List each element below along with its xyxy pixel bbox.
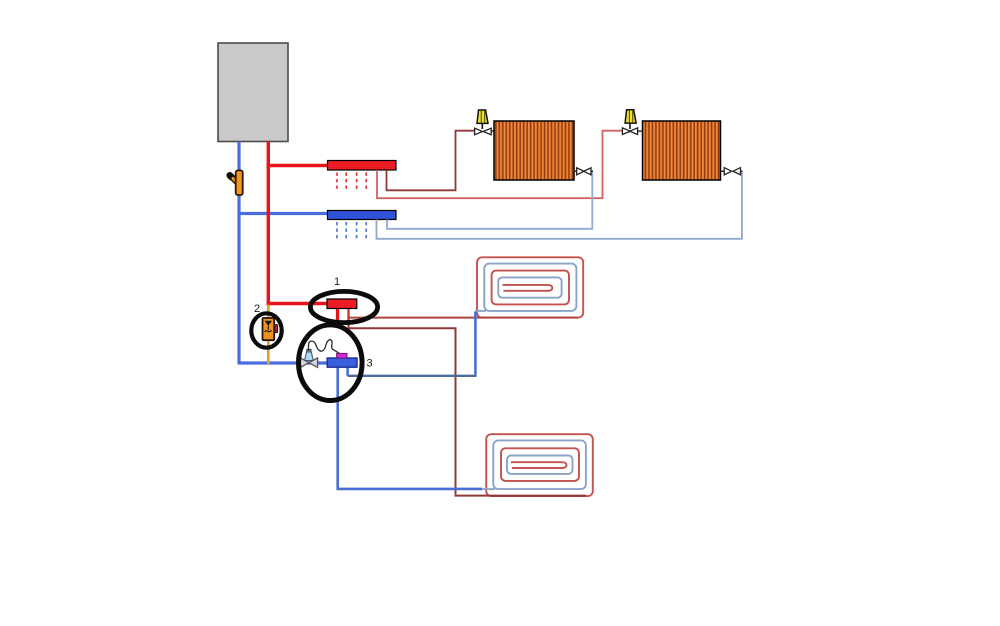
wire radiator 1 supply (dark red) (387, 131, 475, 191)
coil1 outer red ring (477, 257, 583, 317)
radiator R1 (494, 121, 574, 180)
wire blue supply vertical from boiler (237, 142, 240, 364)
boiler (218, 43, 288, 142)
valve radiator 2 return lockshield (721, 168, 743, 175)
wire blue horizontal to mixing valve (238, 361, 329, 364)
mixing valve (gray) (300, 358, 317, 368)
wire floor loop 2 feed (348, 328, 456, 494)
coil1 blue ring B (484, 264, 576, 311)
capillary wire from actuator to pump sensor (309, 340, 340, 354)
valve radiator 1 thermostatic (475, 110, 492, 135)
wire red feed to small manifold 1 (267, 302, 327, 305)
wire blue branch to blue manifold (238, 212, 328, 215)
svg-text:3: 3 (366, 358, 372, 370)
actuator cone on mixing valve (307, 349, 311, 352)
valve radiator 2 thermostatic (622, 110, 637, 135)
wire radiator 2 supply (light red) (377, 131, 623, 199)
wire manifold1 left drop (336, 309, 339, 323)
coil2 center red U-turn (511, 462, 567, 468)
coil2 outer red ring (486, 434, 593, 496)
wire floor loop 1 feed (348, 317, 579, 319)
pump (blue) (327, 358, 357, 367)
wire stub valve2 to radiator2 (637, 130, 643, 132)
wire coil1 blue exit stub (475, 310, 486, 312)
floor coil 1 (475, 257, 583, 317)
wire pump drop to coil1 return (346, 367, 349, 376)
circle highlight 1 (310, 291, 377, 322)
Y strainer on boiler return (230, 170, 243, 195)
wire pump drop to coil2 return (336, 367, 339, 489)
svg-text:1: 1 (334, 276, 340, 288)
red manifold dashed outlets (337, 173, 366, 192)
valve radiator 1 return lockshield (574, 168, 593, 175)
red manifold (328, 161, 397, 171)
circle highlight 2 (251, 313, 281, 347)
wire red vertical from boiler (267, 142, 270, 307)
wire red branch to red manifold (267, 164, 328, 167)
svg-text:2: 2 (254, 303, 260, 315)
wire manifold1 right drop (347, 309, 349, 327)
wire radiator 2 return (light blue) (377, 171, 742, 239)
coil2 red ring C (501, 448, 579, 481)
circle highlight 3 (299, 325, 363, 401)
coil1 blue ring D (498, 277, 561, 297)
wire floor loop 2 feed bottom (455, 495, 587, 497)
wire coil1 return horizontal to pump (348, 375, 477, 377)
pump sensor cap (magenta) (337, 353, 347, 358)
coil1 red ring C (492, 271, 569, 305)
floor coil 2 (480, 434, 593, 496)
radiator R2 (643, 121, 721, 180)
blue manifold dashed outlets (337, 222, 366, 241)
blue manifold (328, 211, 397, 220)
wire stub valve1 to radiator1 (491, 130, 495, 132)
coil2 blue ring D (507, 456, 573, 474)
wire coil2 return horizontal (337, 488, 483, 491)
coil2 blue ring B (493, 440, 586, 489)
wire radiator 1 return (light blue) (387, 171, 592, 229)
small manifold 1 (circled) (327, 299, 357, 309)
wire coil2 blue exit stub (480, 488, 495, 490)
wire orange bypass vertical (267, 305, 270, 365)
coil1 center red U-turn (503, 285, 553, 291)
wire coil1 blue return vertical (474, 312, 477, 375)
check valve component 2 (263, 318, 278, 340)
